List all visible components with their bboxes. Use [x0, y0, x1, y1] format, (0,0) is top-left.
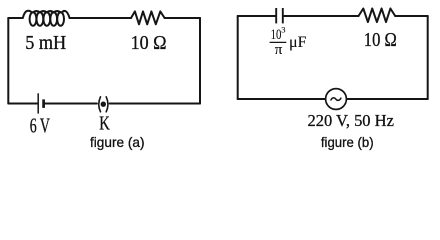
- battery 6 V: [38, 93, 43, 113]
- AC source 220 V, 50 Hz: [326, 89, 347, 110]
- wire: figure (a) top, left corner to inductor: [8, 17, 22, 19]
- svg-text:10 Ω: 10 Ω: [364, 29, 397, 51]
- resistor R 10 ohm (figure b): [359, 9, 396, 23]
- wire: figure (a) right side: [199, 18, 201, 104]
- wire: figure (a) top, inductor to resistor: [70, 17, 131, 19]
- svg-text:6 V: 6 V: [30, 114, 50, 138]
- resistor R 10 ohm (figure a): [131, 11, 165, 24]
- svg-text:10 Ω: 10 Ω: [131, 32, 167, 54]
- wire: figure (b) right side: [427, 16, 429, 99]
- capacitor C 10^3/pi uF: [276, 8, 283, 23]
- wire: figure (b) bottom, right corner to AC source: [347, 98, 428, 100]
- key K (switch): [99, 97, 108, 112]
- svg-text:5 mH: 5 mH: [25, 32, 66, 54]
- wire: figure (a) bottom, key to battery: [44, 103, 97, 105]
- svg-text:K: K: [99, 113, 110, 135]
- wire: figure (b) left side: [237, 16, 239, 99]
- wire: figure (a) bottom, right corner to key: [110, 103, 200, 105]
- wire: figure (a) top, resistor to right corner: [165, 17, 200, 19]
- svg-text:μF: μF: [289, 34, 307, 51]
- wire: figure (b) top, resistor to right corner: [395, 15, 428, 17]
- wire: figure (a) bottom, battery to left corner: [8, 103, 37, 105]
- wire: figure (a) left side: [7, 18, 9, 104]
- svg-text:220 V, 50 Hz: 220 V, 50 Hz: [308, 111, 395, 130]
- svg-text:10: 10: [271, 27, 282, 43]
- wire: figure (b) top, capacitor to resistor: [284, 15, 359, 17]
- svg-text:figure (a): figure (a): [90, 134, 145, 150]
- inductor L 5 mH: [23, 11, 70, 26]
- svg-text:3: 3: [281, 25, 285, 35]
- wire: figure (b) top, left corner to capacitor: [238, 15, 276, 17]
- svg-text:figure (b): figure (b): [321, 134, 374, 150]
- label: 10^3/pi uF (capacitor value): [270, 25, 307, 58]
- wire: figure (b) bottom, AC source to left corner: [238, 98, 326, 100]
- svg-text:π: π: [275, 42, 283, 58]
